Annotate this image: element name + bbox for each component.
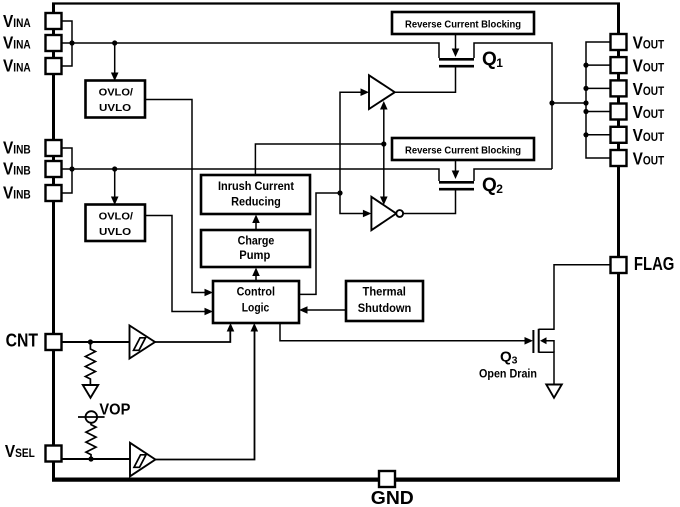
svg-text:VOUT: VOUT bbox=[633, 34, 665, 53]
svg-text:OVLO/: OVLO/ bbox=[99, 88, 134, 99]
svg-text:VINA: VINA bbox=[3, 34, 31, 53]
svg-text:Open Drain: Open Drain bbox=[479, 369, 537, 381]
svg-text:Shutdown: Shutdown bbox=[358, 303, 412, 315]
svg-text:Thermal: Thermal bbox=[363, 287, 406, 299]
svg-text:Logic: Logic bbox=[242, 303, 270, 315]
svg-text:Q3: Q3 bbox=[500, 349, 518, 367]
svg-text:FLAG: FLAG bbox=[634, 254, 675, 274]
svg-text:VINB: VINB bbox=[3, 139, 31, 158]
svg-text:VINB: VINB bbox=[3, 160, 31, 179]
svg-text:Q2: Q2 bbox=[482, 175, 503, 196]
svg-text:VOUT: VOUT bbox=[633, 80, 665, 99]
svg-text:Inrush Current: Inrush Current bbox=[218, 181, 294, 193]
svg-text:GND: GND bbox=[371, 487, 414, 507]
svg-text:Charge: Charge bbox=[238, 233, 275, 247]
svg-text:UVLO: UVLO bbox=[99, 103, 131, 114]
svg-text:VOUT: VOUT bbox=[633, 150, 665, 169]
svg-text:VINA: VINA bbox=[3, 57, 31, 76]
svg-text:VOUT: VOUT bbox=[633, 103, 665, 122]
svg-text:Pump: Pump bbox=[239, 248, 270, 262]
svg-text:Reducing: Reducing bbox=[231, 197, 281, 209]
svg-text:VOP: VOP bbox=[99, 402, 130, 419]
svg-text:VOUT: VOUT bbox=[633, 126, 665, 145]
svg-text:VINA: VINA bbox=[3, 12, 31, 31]
svg-text:VOUT: VOUT bbox=[633, 57, 665, 76]
svg-text:OVLO/: OVLO/ bbox=[99, 212, 134, 223]
svg-text:UVLO: UVLO bbox=[99, 227, 131, 238]
svg-text:Control: Control bbox=[237, 287, 275, 299]
svg-text:VINB: VINB bbox=[3, 183, 31, 202]
svg-text:Reverse Current Blocking: Reverse Current Blocking bbox=[405, 20, 521, 31]
svg-text:Reverse Current Blocking: Reverse Current Blocking bbox=[405, 146, 521, 157]
svg-text:Q1: Q1 bbox=[482, 49, 503, 70]
svg-text:VSEL: VSEL bbox=[5, 442, 35, 461]
svg-text:CNT: CNT bbox=[6, 331, 38, 351]
